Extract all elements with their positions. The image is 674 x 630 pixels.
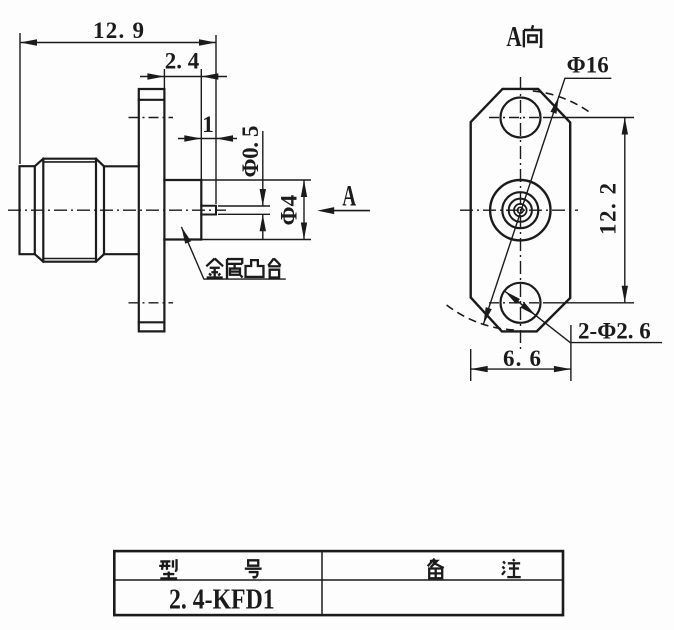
svg-text:2. 4-KFD1: 2. 4-KFD1	[169, 582, 275, 615]
dimension 6.6	[471, 325, 571, 381]
bottom mounting hole	[501, 283, 541, 323]
svg-text:Φ0. 5: Φ0. 5	[238, 126, 263, 178]
svg-text:2-Φ2. 6: 2-Φ2. 6	[578, 319, 651, 344]
svg-text:Φ4: Φ4	[277, 194, 302, 225]
svg-text:A: A	[342, 180, 356, 212]
dimension 1	[178, 69, 237, 179]
label 金属凸台 text	[206, 258, 280, 278]
flange side view	[139, 89, 165, 331]
front collar	[20, 166, 35, 254]
svg-text:2. 4: 2. 4	[165, 49, 200, 74]
dimension Φ0.5	[218, 131, 270, 240]
svg-text:6. 6: 6. 6	[503, 346, 541, 371]
view direction arrow A	[322, 210, 370, 212]
top hole centerline	[129, 117, 174, 119]
centerlines left view	[8, 118, 226, 303]
svg-text:12. 2: 12. 2	[596, 183, 621, 235]
flange outline octagon	[471, 89, 571, 332]
boss 金属凸台	[164, 180, 201, 240]
flange chamfer lines	[139, 100, 165, 322]
bottom hole centerline	[129, 302, 174, 304]
phantom circle Φ16 dashed arcs	[446, 91, 590, 330]
mid section	[104, 166, 139, 254]
top mounting hole	[501, 98, 541, 138]
dimension 12.9	[20, 33, 216, 204]
centerlines right view	[460, 77, 578, 351]
svg-text:A: A	[506, 21, 522, 53]
nut inner lines	[43, 162, 96, 259]
leader Φ16	[483, 78, 611, 324]
label 金属凸台 leader	[181, 227, 285, 279]
leader 2-Φ2.6	[505, 291, 662, 343]
svg-text:1: 1	[202, 112, 214, 137]
svg-text:Φ16: Φ16	[567, 53, 609, 78]
header 型 号	[159, 559, 177, 578]
dimension 12.2	[545, 118, 634, 303]
center connector circles	[490, 180, 550, 240]
main centerline	[8, 209, 226, 211]
coupling nut body	[35, 159, 104, 262]
center pin	[201, 206, 216, 215]
header 备 注	[428, 559, 444, 579]
dimension 2.4	[140, 69, 227, 88]
dimension Φ4	[201, 180, 311, 240]
svg-text:12. 9: 12. 9	[93, 18, 144, 43]
